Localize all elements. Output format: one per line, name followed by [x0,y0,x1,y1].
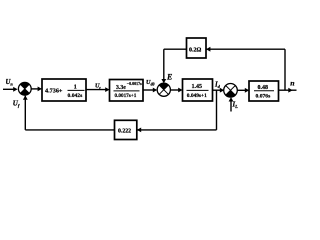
summing junction 3 (bottom sector filled) [224,84,238,98]
wire junction2 to block3 [170,89,179,91]
wire E feedback vertical into junction2 [163,49,165,80]
svg-text:4.736+: 4.736+ [45,88,63,95]
wire top horizontal left segment [164,48,187,50]
svg-text:1: 1 [74,85,77,91]
wire block2 to junction2 [143,89,154,91]
svg-text:E: E [166,72,172,81]
block ASR: 4.736 + 1/0.042s [42,79,86,101]
wire current feedback tap vertical [216,90,218,130]
wire junction3 to block4 [237,89,246,91]
svg-text:0.076s: 0.076s [256,93,272,99]
block motor armature: 1.45/(0.049s+1) [183,79,213,101]
block mechanical: 0.48/0.076s [249,81,279,101]
svg-text:0.049s+1: 0.049s+1 [187,93,207,99]
summing junction 2 (top sector filled) [157,83,170,96]
block rectifier: 3.3e^-0.0017s / (0.0017s+1) [110,80,144,102]
wire bottom feedback horizontal right segment with arrow into block [137,129,217,131]
svg-text:1.45: 1.45 [192,84,203,90]
svg-text:0.2Ω: 0.2Ω [189,48,202,54]
wire right vertical tap down to output line [284,49,286,90]
svg-text:0.042s: 0.042s [68,93,84,99]
svg-text:−0.0017s: −0.0017s [127,81,142,86]
wire input arrow into summing junction 1 [3,88,15,90]
summing junction 1 (circle with X, top and bottom sectors filled) [18,82,31,95]
svg-text:n: n [290,78,294,87]
wire bottom feedback left vertical into junction1 [24,96,26,130]
block 0.2 ohm (feedback) [187,38,207,58]
wire bottom feedback horizontal left segment [25,129,114,131]
wire IL disturbance stub into junction3 [230,100,232,112]
wire top horizontal right segment with arrow into block [206,48,285,50]
wire block1 to block2 [86,89,107,91]
svg-text:0.222: 0.222 [118,128,131,134]
wire output with arrowhead [279,89,297,91]
svg-text:0.0017s+1: 0.0017s+1 [115,93,137,99]
wire junction1 to block1 [31,88,39,90]
svg-text:0.48: 0.48 [258,85,269,91]
wire block3 to junction3 [213,89,222,91]
block feedback coefficient 0.222 [115,120,137,139]
svg-text:3.3e: 3.3e [116,85,126,91]
